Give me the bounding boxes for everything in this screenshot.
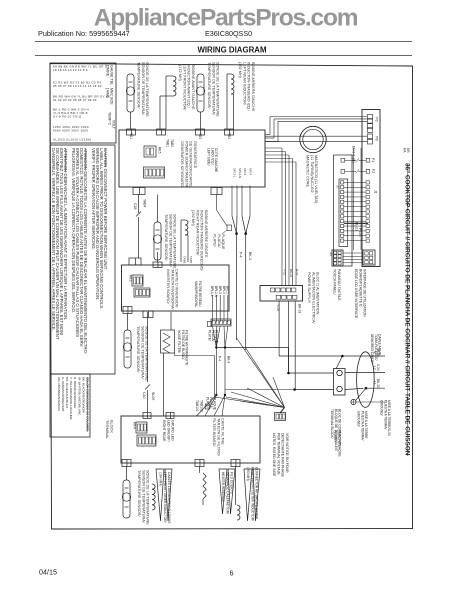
svg-text:RK1: RK1 (129, 275, 133, 282)
core inner circle (303, 129, 323, 149)
svg-text:05 05 07 08 10 12 14 16 18 20: 05 05 07 08 10 12 14 16 18 20 (53, 84, 102, 88)
svg-text:INDUCTOR-TRASERO DERECHO/: INDUCTOR-TRASERO DERECHO/ (200, 210, 204, 272)
wire TAB102 diagonal (214, 395, 225, 416)
svg-text:BLOC DE CONNECTION: BLOC DE CONNECTION (338, 409, 342, 447)
twisted-pair wedge W2 (219, 469, 227, 514)
tab TB2 on U1 top (157, 129, 166, 135)
svg-text:SONDE DE LA TEMPERATURE: SONDE DE LA TEMPERATURE (145, 62, 149, 117)
plate connector stub (227, 225, 232, 231)
svg-text:PLACA/: PLACA/ (217, 234, 221, 248)
wire L2 top lead (227, 73, 231, 75)
junction L1/ground (365, 387, 368, 390)
wire TAB101b diagonal (205, 395, 216, 416)
svg-text:EN-2 (L-21): EN-2 (L-21) (352, 146, 356, 163)
svg-text:W-09: W-09 (151, 392, 155, 400)
wire L3 lead down (180, 220, 182, 262)
noise filter element (161, 330, 175, 353)
bold rung W-21 (344, 222, 368, 224)
svg-text:Publication No: 5995659447: Publication No: 5995659447 (38, 29, 130, 38)
connector J7 pin frame (339, 179, 348, 247)
wire C10 lower (147, 390, 149, 412)
svg-text:P6: P6 (375, 117, 379, 122)
wire run N through ellipse (279, 355, 385, 357)
svg-text:SPL3: SPL3 (243, 168, 247, 175)
wire C28 upper (138, 195, 140, 214)
svg-text:BLOC D ALIMENTATION: BLOC D ALIMENTATION (316, 272, 320, 315)
svg-text:HEATER WINDING/: HEATER WINDING/ (221, 472, 225, 502)
wire fan-out bundle to filter connector (237, 338, 285, 408)
svg-text:BOBINE ARRIERE DROITE: BOBINE ARRIERE DROITE (204, 210, 208, 258)
svg-text:PELIGROSAS. VERIFIQUE LA CORRE: PELIGROSAS. VERIFIQUE LA CORRECTA OPERAC… (71, 148, 76, 313)
wire P-4 vertical (215, 348, 217, 396)
wire 9-19 down (288, 301, 290, 371)
svg-text:6: 6 (230, 569, 234, 578)
junction lower left (215, 394, 217, 396)
connector strip below U2 (211, 319, 231, 326)
wire to R1 (199, 467, 201, 474)
svg-text:LEFT FRONT INNER INDUCTOR/: LEFT FRONT INNER INDUCTOR/ (163, 472, 167, 523)
svg-text:SENSOR DE TEMPERATURA/: SENSOR DE TEMPERATURA/ (168, 214, 172, 268)
svg-text:GENERATRICE: GENERATRICE (193, 141, 197, 169)
wire U2 to noise filter (170, 312, 172, 330)
pin P2 (366, 169, 370, 173)
svg-text:SPL2-N: SPL2-N (238, 168, 242, 178)
svg-text:SENSOR DE TEMPERATURA/: SENSOR DE TEMPERATURA/ (140, 326, 144, 380)
wire N diagonal to terminal (336, 356, 342, 369)
relay RK4 (136, 422, 147, 433)
svg-text:FILTRE RESEAU: FILTRE RESEAU (198, 281, 202, 307)
break symbol C10 (145, 385, 150, 390)
svg-text:PLAQUE: PLAQUE (212, 397, 216, 410)
svg-text:W- WHITE/BLANCO/BLANC: W- WHITE/BLANCO/BLANC (77, 377, 81, 416)
svg-text:SONDE DE LA TEMPERATURE: SONDE DE LA TEMPERATURE (173, 214, 177, 269)
plate stub upper (207, 322, 212, 327)
svg-text:9-30: 9-30 (376, 364, 380, 371)
svg-text:TEMPERATURE SENSOR/: TEMPERATURE SENSOR/ (137, 62, 141, 109)
svg-text:FILTRE ANTIPARASITE: FILTRE ANTIPARASITE (185, 330, 189, 366)
svg-text:INDUCTOR-TRASERO IZQ./: INDUCTOR-TRASERO IZQ./ (247, 62, 251, 112)
connector J4 (332, 250, 343, 266)
junction dot B (244, 232, 247, 235)
tab on U2 top 2 (153, 262, 162, 268)
resistor R1 (203, 473, 206, 499)
svg-text:DANGEREUX. VERIFIEZ LE BON FON: DANGEREUX. VERIFIEZ LE BON FONCTIONNEMEN… (51, 148, 56, 331)
svg-text:(290 MH): (290 MH) (246, 467, 250, 481)
svg-text:SPL4: SPL4 (248, 168, 252, 175)
svg-text:ALIMENTACION ELECTRICA/: ALIMENTACION ELECTRICA/ (311, 272, 315, 325)
svg-text:TAB5: TAB5 (183, 256, 187, 264)
svg-text:BPL3: BPL3 (218, 286, 222, 294)
svg-text:Y- YELLOW/AMARILLO/JAUNE: Y- YELLOW/AMARILLO/JAUNE (69, 377, 73, 420)
svg-text:BPL5: BPL5 (226, 286, 230, 294)
wire L1 top lead (166, 75, 173, 77)
svg-text:NOTES: RATED ONE SIDE: NOTES: RATED ONE SIDE (272, 433, 276, 477)
twisted-pair wedge W3 (244, 469, 252, 521)
svg-text:CONNECTOR AV. DROITE EXTER.: CONNECTOR AV. DROITE EXTER. (255, 467, 259, 520)
svg-text:GY-9 PK-10 TN-11: GY-9 PK-10 TN-11 (53, 115, 82, 119)
junction dot A (235, 232, 238, 235)
svg-text:BPL1-L: BPL1-L (210, 286, 214, 297)
svg-text:RIGHT REAR: RIGHT REAR (162, 420, 166, 442)
svg-text:TAB2: TAB2 (170, 139, 174, 147)
svg-text:DEVANADO CALEFACTOR/: DEVANADO CALEFACTOR/ (225, 472, 229, 514)
tab on U2 top (129, 258, 141, 265)
power supply block (260, 286, 303, 302)
svg-text:TOUCH PANEL/: TOUCH PANEL/ (333, 269, 337, 295)
svg-text:TB1: TB1 (129, 133, 133, 139)
tab TB3 on U1 top (196, 129, 205, 135)
svg-text:RK4: RK4 (133, 422, 137, 429)
svg-text:BOARD/PLAQUETTE E: BOARD/PLAQUETTE E (358, 269, 362, 307)
legend header underline (87, 377, 89, 432)
svg-text:TEMPERATURE SENSOR/: TEMPERATURE SENSOR/ (136, 326, 140, 373)
inductor L1 left front (173, 76, 176, 96)
wires U1 through core to P8 (265, 135, 367, 137)
wire RT2 to U1 (200, 112, 202, 129)
svg-text:BPL2-N: BPL2-N (214, 286, 218, 298)
wire V right of node A (236, 216, 239, 234)
svg-text:BK- BLACK/NEGRO/NOIR: BK- BLACK/NEGRO/NOIR (81, 377, 85, 414)
svg-text:RK5: RK5 (158, 147, 162, 154)
wire to L5 (235, 467, 237, 506)
svg-text:TAB101: TAB101 (195, 400, 199, 412)
connector J7 outer block (334, 155, 353, 266)
box U2 inverter board (122, 265, 230, 311)
svg-text:BOBINE ARRIERE GAUCHE: BOBINE ARRIERE GAUCHE (251, 62, 255, 112)
svg-text:] WIRE: ] WIRE (106, 65, 110, 77)
inductor L5 bottom (237, 505, 240, 520)
temperature sensor RT5 (122, 480, 130, 518)
svg-text:SONDE DE LA TEMPERATURE: SONDE DE LA TEMPERATURE (146, 470, 150, 525)
svg-text:PANNEAU TACTILE: PANNEAU TACTILE (337, 269, 341, 301)
svg-text:600V 600V 300V 300V: 600V 600V 300V 300V (53, 129, 88, 133)
connector strip U2 (134, 288, 150, 297)
wires J4 to L5 (343, 252, 363, 254)
svg-text:SENSOR DE TEMPERATURA/: SENSOR DE TEMPERATURA/ (141, 62, 145, 116)
svg-text:FILTER BOARD/: FILTER BOARD/ (212, 418, 216, 447)
wire below R1 (202, 499, 204, 505)
wire to ground (356, 388, 366, 400)
svg-text:P4-21: P4-21 (358, 228, 362, 237)
wire TAB102b diagonal (222, 395, 225, 416)
svg-text:KR: KR (406, 148, 410, 153)
wire row1 right (359, 159, 367, 161)
power block lower pin row (276, 295, 281, 299)
svg-text:BOBINE AVANT GAUCHE: BOBINE AVANT GAUCHE (191, 65, 195, 110)
wire BK-19 down (294, 301, 296, 390)
svg-text:LEFT FRONT INDUCTOR/: LEFT FRONT INDUCTOR/ (182, 65, 186, 111)
svg-text:WIRING DIAGRAM: WIRING DIAGRAM (197, 46, 267, 55)
svg-text:P-4: P-4 (218, 356, 222, 361)
plate wire stubs from U1 bottom (231, 186, 233, 217)
diagram border frame (50, 64, 413, 530)
wire U3 to RT5 (126, 467, 128, 481)
break row2 (356, 169, 359, 173)
filter right lead (174, 353, 176, 356)
svg-text:LADO IZQ./: LADO IZQ./ (210, 148, 214, 165)
tab U3 bottom1 (122, 460, 131, 467)
wire Y-19 down (278, 301, 280, 356)
wire L1 bottom lead (160, 95, 173, 97)
svg-text:CABLES LARGOS/FILS O LONGS: CABLES LARGOS/FILS O LONGS (167, 472, 171, 524)
tab TB4 on U1 top (225, 129, 234, 135)
svg-text:PLAQUE: PLAQUE (221, 234, 225, 250)
svg-text:PUESTA A TIERRA/: PUESTA A TIERRA/ (383, 400, 387, 429)
relay RK5 (144, 146, 156, 157)
wire RT1 to U1 (130, 112, 132, 129)
svg-text:MISE A LA TERRE: MISE A LA TERRE (364, 411, 368, 439)
wire row2 left (345, 170, 356, 172)
svg-text:(164 MH): (164 MH) (159, 472, 163, 486)
wire rungs J7 to J1 (344, 181, 366, 183)
wires BPL1-BPL5 out of U2 bottom (212, 295, 214, 322)
pin J7-2 (341, 169, 345, 173)
twisted-pair wedge W1 (156, 469, 164, 521)
connector P10 (275, 413, 286, 421)
svg-text:BLOQUE DE TERMINALES/: BLOQUE DE TERMINALES/ (334, 409, 338, 451)
tab P04 on U1 bottom (133, 188, 145, 195)
wire L1 lead down (165, 76, 167, 129)
ground symbol (351, 399, 356, 404)
svg-text:MM2 SIZE: MM2 SIZE (110, 88, 114, 105)
svg-text:RL-21: RL-21 (355, 222, 359, 231)
break symbol C28 (136, 212, 141, 217)
svg-text:GENERATOR KEYBOARD: GENERATOR KEYBOARD (180, 141, 184, 187)
box U3 filter board (121, 416, 260, 463)
svg-text:C28: C28 (133, 203, 137, 209)
svg-text:J7: J7 (336, 185, 340, 189)
wire L1 to junction (345, 388, 363, 389)
svg-text:E36IC80QSS0: E36IC80QSS0 (205, 29, 252, 38)
svg-text:TEMPERATURE SENSOR/: TEMPERATURE SENSOR/ (137, 470, 141, 517)
svg-text:L1: L1 (373, 381, 377, 385)
svg-text:EDGE LCD USER INTERFACE: EDGE LCD USER INTERFACE (354, 269, 358, 319)
wire node down (214, 356, 216, 397)
svg-text:LEFT SIDE/: LEFT SIDE/ (207, 148, 211, 166)
svg-text:P-4: P-4 (239, 252, 243, 258)
svg-text:NOISE FILTER/: NOISE FILTER/ (177, 330, 181, 353)
svg-text:LED GROUP/: LED GROUP/ (166, 420, 170, 442)
armored cable ellipse (357, 352, 375, 408)
svg-text:AppliancePartsPros.com: AppliancePartsPros.com (94, 5, 358, 32)
svg-text:LEFT REAR INDUCTOR/: LEFT REAR INDUCTOR/ (242, 62, 246, 106)
wires U1 to P6 connector (265, 134, 270, 136)
svg-text:BK-30: BK-30 (376, 379, 380, 388)
wire run lower (225, 389, 295, 391)
tab below U2 for C10 (143, 311, 153, 318)
svg-text:Y-31: Y-31 (283, 269, 287, 275)
wire L3 lead2 down (187, 235, 189, 262)
svg-text:BK-31: BK-31 (289, 269, 293, 278)
svg-text:FILTRO DE RUIDO/: FILTRO DE RUIDO/ (181, 330, 185, 360)
svg-text:TAB6: TAB6 (189, 256, 193, 264)
svg-text:(11 TURNS)/NUCLEO: (11 TURNS)/NUCLEO (310, 155, 314, 192)
caution notice box (50, 145, 115, 374)
svg-text:TEMPERATURE SENSOR/: TEMPERATURE SENSOR/ (164, 214, 168, 261)
inductor L4 lower (152, 484, 155, 510)
tab U3 bottom3 (231, 460, 240, 467)
junction on L2 run (215, 346, 217, 348)
svg-text:SONDE DE LA TEMPERATURE: SONDE DE LA TEMPERATURE (216, 62, 220, 117)
tab on U2 bottom left (123, 307, 132, 314)
svg-text:TARJETA DE FILTRO/: TARJETA DE FILTRO/ (216, 418, 220, 457)
svg-text:TB4: TB4 (227, 133, 231, 139)
svg-text:SENSOR DE TEMPERATURA/: SENSOR DE TEMPERATURA/ (211, 62, 215, 116)
svg-text:J4: J4 (329, 252, 333, 256)
wire C10 upper (147, 312, 149, 382)
tab TB1 on U1 top (127, 129, 136, 135)
svg-text:GROUND/: GROUND/ (357, 411, 361, 427)
vertical wires through rung zone (353, 148, 355, 250)
svg-text:BPL4: BPL4 (222, 286, 226, 294)
svg-text:TARJETA INVERSORA/: TARJETA INVERSORA/ (170, 269, 174, 311)
svg-text:G- GREEN/VERDE/VERT: G- GREEN/VERDE/VERT (61, 377, 65, 412)
svg-text:R- RED/ROJO/ROUGE: R- RED/ROJO/ROUGE (73, 377, 77, 408)
wire P-4 down (236, 234, 238, 340)
svg-text:BK-4: BK-4 (227, 356, 231, 363)
junction BK-30 (293, 388, 296, 391)
svg-text:RIGHT REAR INDUCTOR/: RIGHT REAR INDUCTOR/ (195, 210, 199, 256)
power block upper pin row (270, 288, 274, 292)
wire TAB101 diagonal (197, 395, 217, 416)
title underline (407, 163, 409, 456)
box U1 generator power board (119, 130, 265, 187)
svg-text:BLOCK: BLOCK (110, 420, 114, 433)
junction on L2 run second (224, 346, 226, 348)
svg-text:OR- ORANGE/NARANJA: OR- ORANGE/NARANJA (57, 377, 61, 411)
svg-text:SPL1-L: SPL1-L (233, 168, 237, 178)
svg-text:INVERTER BOARD/: INVERTER BOARD/ (166, 269, 170, 305)
leader to plate label (222, 230, 227, 234)
wire RT3 to U2 (157, 252, 159, 262)
svg-text:MAIN/PRINCIPAL: MAIN/PRINCIPAL (194, 281, 198, 307)
wire row1 left (345, 159, 356, 161)
svg-text:GRUPO LED: GRUPO LED (171, 420, 175, 441)
terminal ring 1 (337, 370, 342, 375)
connector J7 pin column (341, 181, 344, 184)
terminal block (334, 369, 346, 396)
wire L2 lead2 down (233, 94, 235, 129)
svg-text:BU- BLUE/AZUL/BLEU: BU- BLUE/AZUL/BLEU (65, 377, 69, 408)
svg-text:PUESTA A TIERRA/: PUESTA A TIERRA/ (360, 411, 364, 440)
wire V left of node B (242, 216, 246, 234)
svg-text:GROUND/: GROUND/ (380, 400, 384, 416)
connector strip U3 (137, 435, 156, 446)
svg-text:(172 MH): (172 MH) (178, 65, 182, 82)
svg-text:MAGNETIC CORE: MAGNETIC CORE (306, 155, 310, 188)
svg-text:SONDE DE LA TEMPERATURE: SONDE DE LA TEMPERATURE (145, 326, 149, 381)
wire BK-4 vertical (224, 348, 226, 396)
svg-text:VOLT: VOLT (112, 120, 116, 130)
wire L1 lead2 down (159, 96, 161, 129)
plate stub lower (205, 404, 210, 409)
relay RK1 (132, 275, 143, 286)
svg-text:TAB102: TAB102 (200, 400, 204, 412)
wire RT3 top lead (157, 195, 159, 223)
connector L5 (363, 250, 375, 265)
svg-text:TB3: TB3 (198, 133, 202, 139)
svg-text:TAB4: TAB4 (143, 199, 147, 208)
wire L2 through ellipse (345, 372, 385, 374)
svg-text:VOIR NOTICE DU FOUR: VOIR NOTICE DU FOUR (285, 433, 289, 473)
svg-text:FILS COURTS: FILS COURTS (230, 472, 234, 495)
wire L2 lead down (226, 74, 228, 129)
svg-text:R-31: R-31 (295, 269, 299, 276)
svg-text:PLACA/: PLACA/ (211, 330, 215, 341)
svg-text:PER TERMINAL VOLTAJE: PER TERMINAL VOLTAJE (276, 433, 280, 475)
svg-text:DE GENERACION/CARTE: DE GENERACION/CARTE (189, 141, 193, 187)
wire L3 top lead (181, 219, 185, 221)
junction 9-30 (287, 372, 290, 375)
connector J1 pin column (366, 181, 369, 184)
magnetic core circle T1 (300, 126, 326, 152)
svg-text:SENSOR DE TEMPERATURA/: SENSOR DE TEMPERATURA/ (141, 470, 145, 524)
break row1 (356, 158, 359, 162)
temperature sensor RT4 (123, 330, 131, 368)
pin J7-1 (341, 158, 345, 162)
svg-text:36" COOKTOP CIRCUIT // CIRCUIT: 36" COOKTOP CIRCUIT // CIRCUITO DE PLANC… (404, 163, 411, 456)
wire C28 lower (138, 217, 140, 258)
wire row2 right (359, 170, 367, 172)
svg-text:18 18 16 14 12 10 8 6: 18 18 16 14 12 10 8 6 (53, 68, 88, 72)
wire filter to node (175, 355, 215, 357)
wire 9-30 into terminal (289, 372, 334, 374)
svg-text:INDUCTOR-AVANT IZQ./: INDUCTOR-AVANT IZQ./ (187, 65, 191, 109)
svg-text:TERMINAL BLOCK/: TERMINAL BLOCK/ (330, 409, 334, 439)
svg-text:MISE A LA TERRE/G-30: MISE A LA TERRE/G-30 (387, 400, 391, 436)
box U4 user interface board (362, 110, 380, 267)
svg-text:TERMINAL: TERMINAL (105, 420, 109, 439)
svg-text:ARMORED CABLE/: ARMORED CABLE/ (370, 334, 374, 364)
header rule lower (35, 55, 412, 57)
svg-text:(192 MH): (192 MH) (191, 210, 195, 227)
tab U3 bottom2 (195, 460, 204, 467)
svg-text:W-30: W-30 (376, 349, 380, 357)
wire U2 to RT4 (127, 314, 129, 331)
svg-text:GAUGE TBL: GAUGE TBL (110, 65, 114, 85)
inductor L3 right rear (185, 220, 188, 235)
svg-text:04/15: 04/15 (39, 568, 57, 577)
wires from U2 strip converge to P-4/BK-4 nodes (213, 326, 217, 348)
svg-text:COTE GAUCHE: COTE GAUCHE (214, 148, 218, 173)
temperature sensor RT2 (196, 74, 204, 112)
svg-text:INTERFACE DE UTILIZATION: INTERFACE DE UTILIZATION (363, 269, 367, 317)
wire V left of node A (232, 216, 237, 234)
wire code table box (50, 63, 116, 143)
svg-text:(192 MH): (192 MH) (238, 62, 242, 79)
svg-text:PLATE/: PLATE/ (213, 234, 217, 248)
junction N line (341, 355, 344, 358)
connector P6 (367, 115, 372, 119)
svg-text:DETECTANTE PAR PHASE: DETECTANTE PAR PHASE (281, 433, 285, 477)
wire L1 through ellipse (366, 387, 385, 389)
wire legend box (50, 374, 90, 437)
svg-text:01 02 03 04 05 06 07 08 09: 01 02 03 04 05 06 07 08 09 (53, 98, 97, 102)
svg-text:L2: L2 (373, 366, 377, 370)
inductor L2 left rear (231, 74, 234, 94)
noise filter zigzag (163, 333, 170, 353)
svg-text:RIGHT FRONT OUTER INDUCTOR/: RIGHT FRONT OUTER INDUCTOR/ (250, 467, 254, 521)
svg-text:TEMPERATURE SENSOR/: TEMPERATURE SENSOR/ (207, 62, 211, 109)
wire L3 bottom lead (185, 234, 188, 236)
svg-text:CARTE D INVERSION: CARTE D INVERSION (175, 269, 179, 308)
svg-text:TEMP C: TEMP C (108, 112, 112, 126)
svg-text:UL1015 UL1015 UL3266: UL1015 UL1015 UL3266 (53, 138, 91, 142)
svg-text:] AWG: ] AWG (106, 88, 110, 98)
wire V right of node B (246, 216, 250, 234)
wire run L2 upper (216, 347, 288, 349)
svg-text:BK-4: BK-4 (248, 252, 252, 260)
